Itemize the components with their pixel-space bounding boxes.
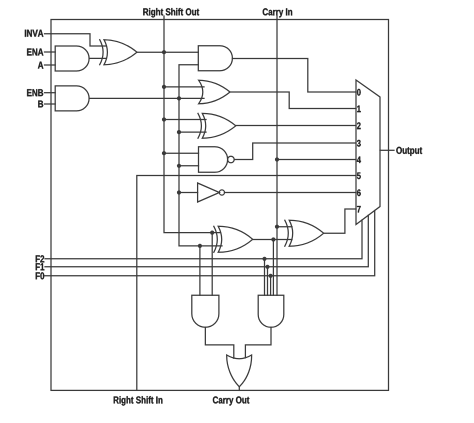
wire G2 bottom input from B line [179,131,206,133]
wire G4 input from B line [179,192,198,194]
wire A distribution line (Right Shift Out) [164,16,220,233]
or-gate CO (carry out) vertical [227,355,252,387]
label A [38,62,43,69]
wire X1 output to X2 bottom input [253,239,292,241]
wire F1 tap to carry AND [267,267,269,295]
not-gate G4 bubble [219,190,224,195]
wire F0 select line to mux [45,211,375,276]
wire X2 output to mux input 7 [324,209,356,233]
label mux pin 5 [357,173,361,180]
label Carry In [263,8,292,17]
wire INVA to XOR UX top input [45,34,107,46]
wire CA1 output to OR [205,327,233,358]
label mux pin 4 [357,157,361,164]
wire A input [45,64,56,66]
label ENB [27,89,43,96]
wire GA out to XOR UX bottom input [89,57,106,59]
xor-gate G2 body (mux input 2) [202,113,236,138]
wire A-signal: UX out to AND G0 top input [137,51,198,53]
wire G3 top input from A line [164,152,199,154]
junction B line to G2 [177,130,181,134]
wire Right Shift In to mux input 5 [137,176,356,391]
xor-gate X2 adder body [289,220,324,246]
xor-gate UX (INVA xor A.ENA) body [104,40,137,65]
wire G4 output to mux input 6 [225,192,357,194]
wire B input [45,103,56,105]
wire G1 top input from A line [164,86,204,88]
not-gate G4 triangle (mux input 6) [198,183,220,202]
wire G3 output to mux input 3 [234,143,356,160]
junction B line join [177,96,181,100]
junction carry line to mux input 4 [275,157,279,161]
label F2 [36,255,45,262]
label mux pin 1 [357,106,360,113]
junction A line to G1 [162,85,166,89]
wire carry out stub [238,387,240,391]
xor-gate UX back curve [100,40,103,65]
label F1 [36,263,45,270]
wire F0 tap to carry AND [270,276,272,295]
wire G0 output to mux input 0 [232,59,356,93]
wire A tap to adder AND [211,233,213,296]
wire mux input 4 from carry line [277,159,356,161]
label Right Shift Out [143,8,199,17]
junction A line to G2 [162,117,166,121]
wire F2 tap to carry AND [264,259,266,295]
wire G3 bottom input from B line [179,165,199,167]
and-gate GB (ENB,B) [55,86,89,111]
label Carry Out [213,396,250,405]
wire B tap to adder AND [199,246,201,295]
and-gate CA2 (carry enable) vertical [258,295,284,327]
wire F2 select line to mux [45,220,362,259]
label INVA [25,30,43,37]
label ENA [27,49,43,56]
label mux pin 0 [357,89,361,96]
junction F2 tap [262,257,266,261]
wire CA2 output to OR [245,327,271,358]
wire Carry In line down to carry AND gate [276,16,278,295]
nand-gate G3 body (mux input 3) [199,147,228,173]
junction carry line to X2 [275,225,279,229]
junction A line to G0 [162,50,166,54]
junction X1 out tap [271,237,275,241]
label mux pin 3 [357,140,361,147]
wire G2 output to mux input 2 [236,125,356,127]
and-gate G0 (mux input 0) [198,46,232,71]
junction A tap at X1 input [210,231,214,235]
xor-gate X1 adder body [218,226,253,252]
wire B-signal: GB out to OR G1 bottom input [89,97,204,99]
wire G1 output to mux input 1 [230,92,356,109]
word labels rendered as vector glyph paths [25,8,422,405]
junction F0 tap [269,274,273,278]
and-gate GA (ENA,A) [55,46,89,71]
and-gate CA1 (A.B carry) vertical [192,295,219,327]
xor-gate X2 back curve [285,220,289,246]
junction B tap at X1 input [198,244,202,248]
xor-gate X1 back curve [214,226,218,252]
wire G2 top input from A line [164,119,206,121]
or-gate G1 (mux input 1) [199,80,230,104]
label mux pin 2 [357,122,361,129]
wire ENB input [45,92,56,94]
label mux pin 6 [357,189,361,196]
ALU boundary box [51,20,389,391]
label Output [396,147,422,156]
junction B line to G3 [177,164,181,168]
label B [38,101,43,108]
junction F1 tap [265,265,269,269]
label F0 [36,272,45,279]
junction A line to G3 [162,151,166,155]
wire ENA input [45,51,56,53]
wire X1 output tap to carry AND [272,240,274,296]
xor-gate G2 back curve [198,113,201,138]
wire mux output [380,149,394,151]
multiplexer MUX body [356,80,380,225]
label mux pin 7 [357,206,361,213]
wire B distribution line [179,65,222,246]
wire F1 select line to mux [45,215,368,266]
label Right Shift In [114,396,163,405]
junction B line to G4 [177,190,181,194]
wire X2 top input from carry line [277,226,292,228]
nand-gate G3 bubble [228,156,235,163]
